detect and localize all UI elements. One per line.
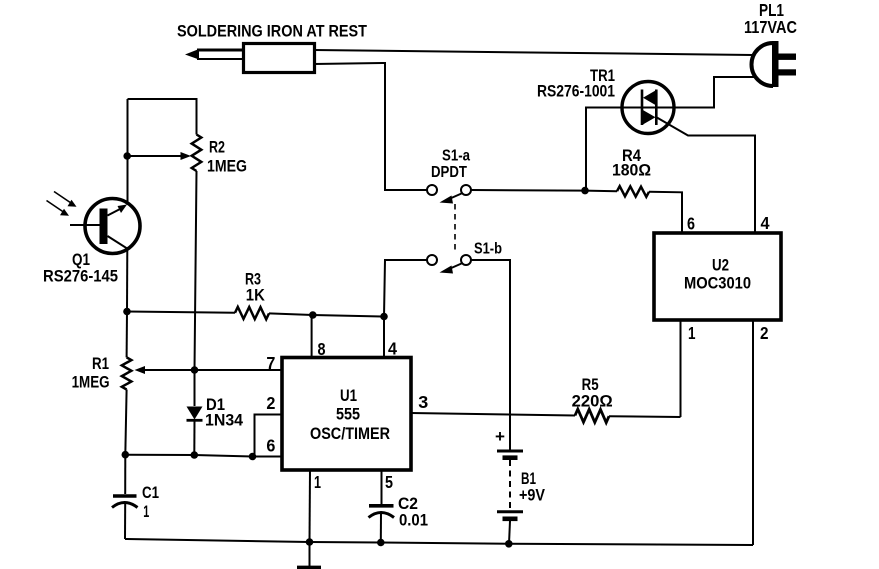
- capacitor C1: [112, 455, 138, 539]
- wire: S1-b left down to pin4 node: [384, 260, 427, 317]
- wire: bottom node rail C1-D1-pin6: [125, 455, 252, 457]
- svg-text:1MEG: 1MEG: [207, 158, 247, 176]
- wire: R2 bottom down to D1 (crosses R3 wire): [195, 171, 197, 406]
- svg-text:+9V: +9V: [519, 487, 545, 505]
- wire: TR1 left lead down to R4 node: [586, 108, 623, 191]
- wire: pin 8 vertical: [311, 315, 313, 357]
- svg-text:RS276-145: RS276-145: [43, 267, 118, 286]
- node: Q1 collector / R2 wiper: [123, 152, 131, 160]
- svg-text:S1-a: S1-a: [442, 148, 470, 165]
- light arrow 1: [54, 192, 77, 207]
- node: D1 top / pin 7: [191, 366, 199, 374]
- wire: pin 4 vertical: [383, 317, 385, 358]
- wire: TR1 gate to U2 pin 4: [656, 117, 755, 232]
- svg-text:R5: R5: [582, 376, 599, 394]
- node: pin 6 junction: [249, 453, 257, 461]
- node: pin 4 junction: [380, 313, 388, 321]
- capacitor C2: [369, 506, 395, 543]
- svg-text:1: 1: [314, 472, 321, 492]
- node: C2 bottom junction: [377, 539, 385, 547]
- wire: R5 to U2 pin 1: [609, 415, 681, 418]
- wire: Q1 emitter down to R3 node: [126, 249, 128, 312]
- svg-text:RS276-1001: RS276-1001: [537, 82, 615, 101]
- node: D1 bottom junction: [191, 451, 199, 459]
- wire: plug bottom to TR1 right: [674, 77, 754, 108]
- wire: R3 left: [127, 312, 235, 313]
- svg-text:+: +: [495, 428, 505, 446]
- triac TR1: [622, 82, 674, 134]
- switch S1-b: [427, 255, 471, 274]
- svg-text:3: 3: [418, 392, 428, 412]
- wire: pin 5 down to C2: [381, 470, 383, 504]
- svg-text:SOLDERING IRON AT REST: SOLDERING IRON AT REST: [177, 22, 368, 41]
- wire: Q1 collector up to top rail: [127, 99, 129, 205]
- wire: node to R4: [585, 190, 617, 193]
- wire: bottom rail: [125, 539, 753, 545]
- wire: S1-b right down to battery B1: [471, 260, 510, 450]
- svg-text:C1: C1: [142, 484, 159, 502]
- phototransistor Q1: [70, 199, 140, 254]
- wire: iron top to plug PL1: [314, 50, 753, 55]
- wire: pin 2 stub: [255, 415, 283, 457]
- potentiometer R2: [192, 135, 202, 172]
- svg-text:R1: R1: [92, 355, 109, 373]
- svg-text:U2: U2: [712, 257, 729, 275]
- svg-text:8: 8: [318, 339, 326, 359]
- light arrow 2: [47, 201, 70, 216]
- wire: U2 pin 1 down to R5 wire: [680, 320, 682, 417]
- wire: pin 7 from D1 node to U1: [195, 369, 283, 371]
- svg-text:1: 1: [143, 503, 149, 521]
- wire: U2 pin 2 down to bottom rail: [752, 320, 754, 545]
- opto-triac U2: [654, 233, 781, 320]
- svg-text:2: 2: [760, 323, 769, 343]
- svg-text:6: 6: [687, 214, 695, 234]
- svg-text:S1-b: S1-b: [474, 241, 502, 258]
- svg-text:555: 555: [336, 406, 360, 424]
- svg-text:1N34: 1N34: [205, 412, 244, 430]
- node: B1 bottom junction: [505, 540, 513, 548]
- R1 wiper arrow: [135, 366, 195, 374]
- wire: R3 right to pin8 and pin4 nodes: [269, 313, 384, 316]
- wire: pin 3 to R5: [411, 413, 575, 416]
- svg-text:6: 6: [266, 436, 275, 456]
- resistor R5: [575, 409, 609, 423]
- R2 wiper arrow: [127, 152, 191, 160]
- svg-text:B1: B1: [521, 470, 536, 488]
- timer U1: [282, 358, 411, 471]
- diode D1: [187, 407, 203, 456]
- node: junction S1-a / TR1 / R4: [581, 187, 589, 195]
- svg-text:0.01: 0.01: [399, 512, 428, 530]
- wire: pin 6 stub: [253, 456, 283, 458]
- svg-text:OSC/TIMER: OSC/TIMER: [310, 425, 390, 443]
- plug PL1: [752, 41, 797, 87]
- battery B1: [497, 451, 523, 544]
- svg-text:1: 1: [688, 323, 696, 343]
- svg-text:220Ω: 220Ω: [572, 392, 613, 410]
- ground: [297, 542, 321, 567]
- switch S1-a: [427, 185, 471, 204]
- svg-text:1K: 1K: [246, 287, 265, 305]
- resistor R3: [235, 307, 269, 319]
- svg-text:117VAC: 117VAC: [744, 17, 797, 37]
- soldering iron tip: [185, 49, 243, 60]
- potentiometer R1: [122, 357, 132, 389]
- node: pin 8 junction: [309, 311, 317, 319]
- wire: S1-a common to R4 junction: [471, 189, 585, 192]
- wire: R1 bottom to C1 node: [125, 390, 126, 456]
- svg-text:MOC3010: MOC3010: [684, 275, 751, 293]
- svg-text:4: 4: [761, 213, 770, 233]
- wire: left rail R3 node to R1: [126, 312, 128, 358]
- wire: R4 to U2 pin 6: [649, 192, 682, 232]
- svg-text:1MEG: 1MEG: [72, 373, 110, 391]
- svg-text:C2: C2: [398, 495, 418, 513]
- soldering iron body: [244, 44, 315, 73]
- node: ground junction: [306, 538, 314, 546]
- svg-text:2: 2: [266, 393, 275, 413]
- svg-text:DPDT: DPDT: [431, 164, 467, 181]
- svg-text:7: 7: [266, 353, 275, 373]
- svg-text:4: 4: [388, 339, 397, 359]
- wire: iron bottom to S1-a left: [314, 63, 427, 190]
- node: left rail / R3: [123, 308, 131, 316]
- resistor R4: [617, 186, 649, 197]
- svg-text:R2: R2: [209, 139, 225, 157]
- svg-text:5: 5: [385, 472, 393, 492]
- node: C1 top junction: [122, 451, 130, 459]
- wire: pin 1 down to ground node: [309, 470, 312, 542]
- wire: top rail to R2 top: [128, 99, 197, 135]
- svg-text:180Ω: 180Ω: [612, 161, 651, 180]
- dashed link S1-a to S1-b: [454, 204, 456, 251]
- svg-text:U1: U1: [340, 387, 357, 405]
